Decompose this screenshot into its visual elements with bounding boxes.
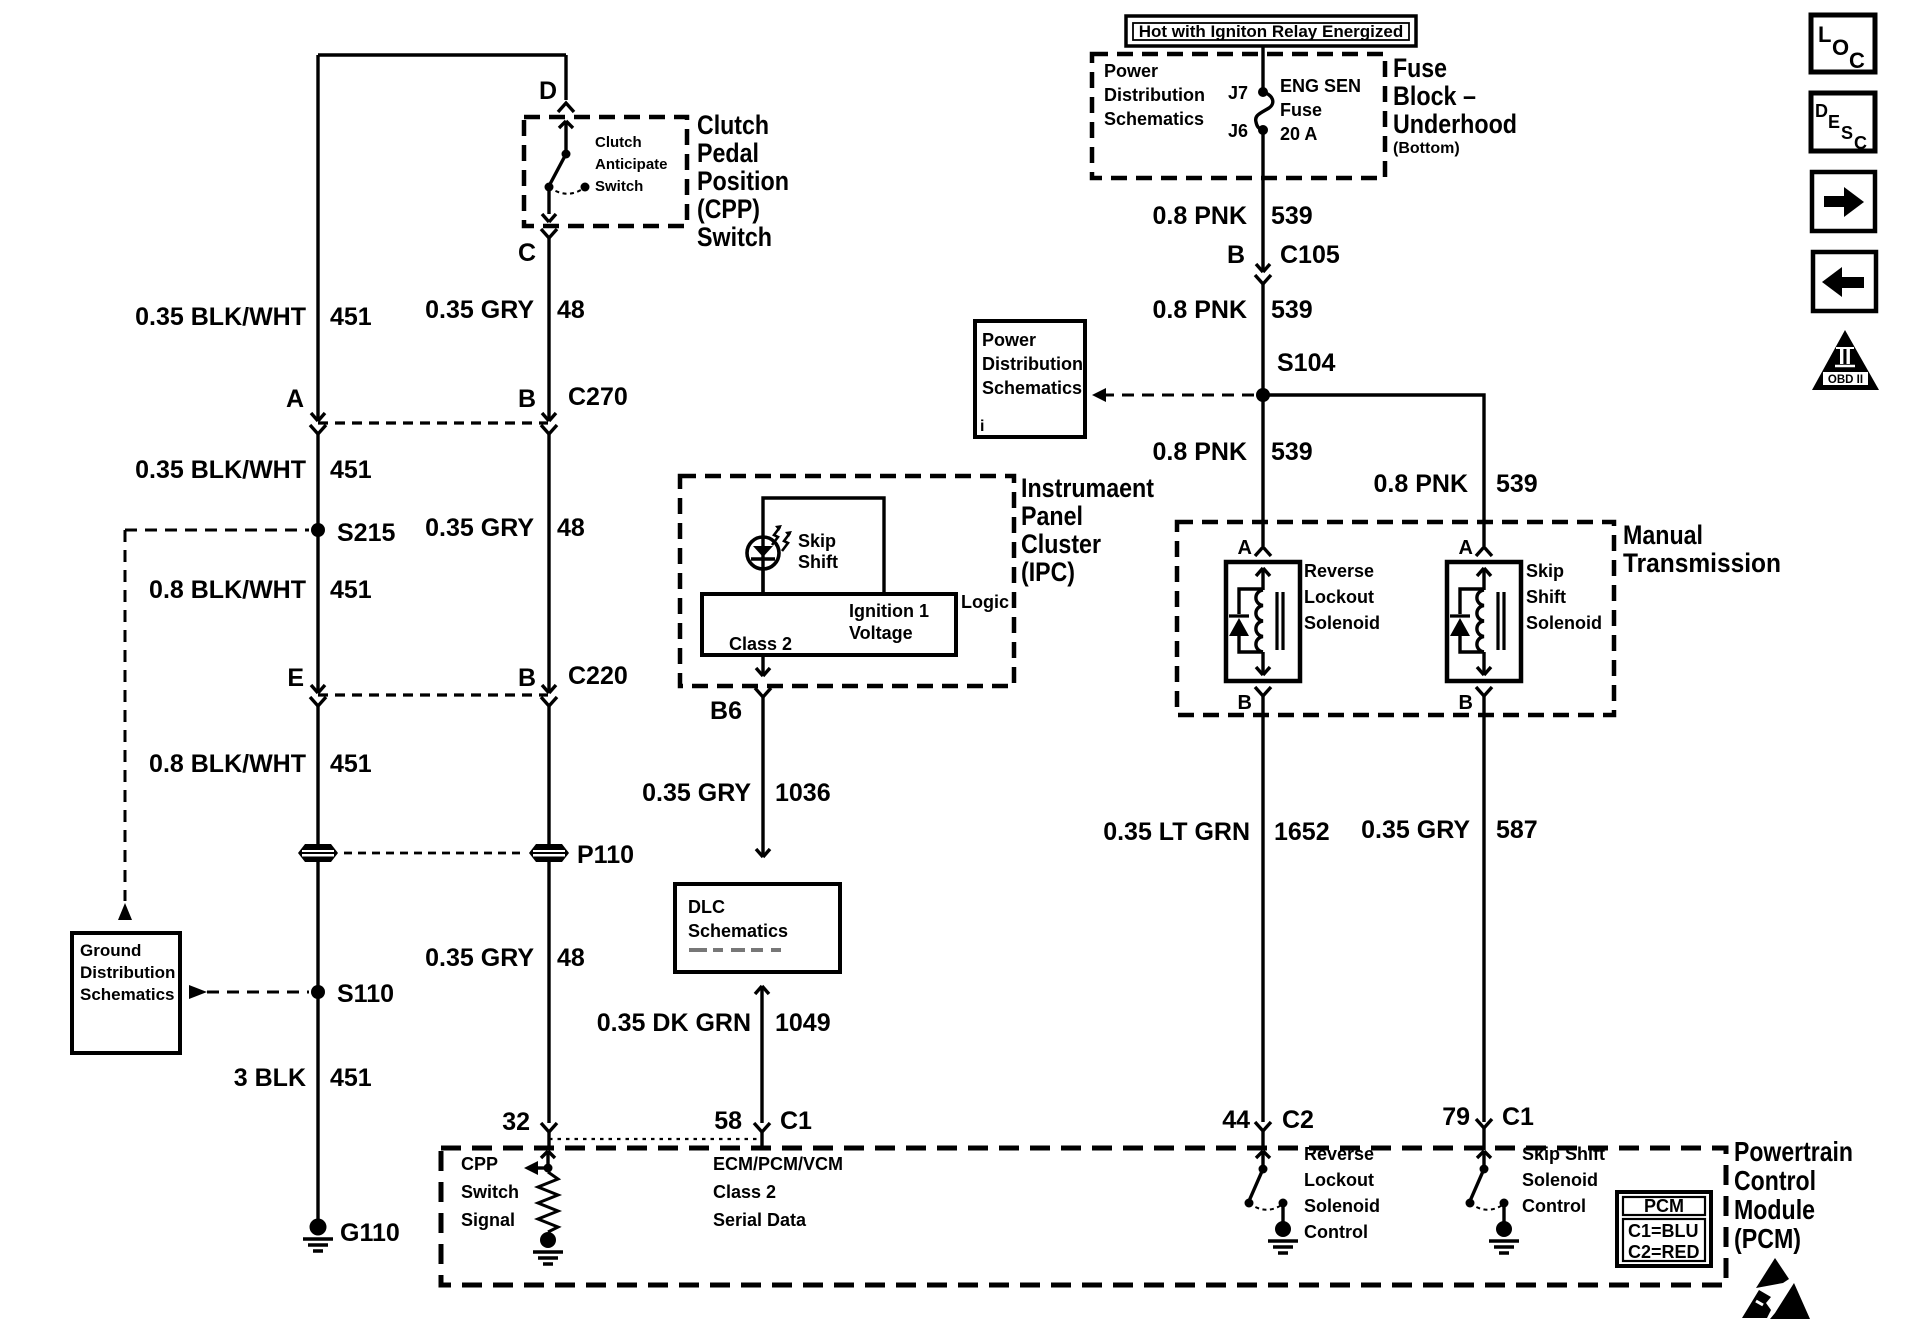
svg-text:0.8 BLK/WHT: 0.8 BLK/WHT [149,750,306,778]
svg-text:0.35 DK GRN: 0.35 DK GRN [597,1009,751,1037]
svg-text:S: S [1841,123,1853,143]
svg-text:Switch: Switch [461,1182,519,1202]
svg-text:Ignition 1: Ignition 1 [849,601,929,621]
svg-text:(IPC): (IPC) [1021,557,1075,587]
svg-text:J7: J7 [1228,83,1248,103]
svg-text:79: 79 [1442,1103,1470,1131]
svg-text:Module: Module [1734,1194,1815,1225]
svg-text:539: 539 [1271,202,1313,230]
svg-text:Position: Position [697,166,789,196]
svg-text:Skip Shift: Skip Shift [1522,1144,1605,1164]
svg-text:Lockout: Lockout [1304,1170,1374,1190]
svg-text:Solenoid: Solenoid [1522,1170,1598,1190]
svg-text:J6: J6 [1228,121,1248,141]
svg-text:D: D [1815,101,1828,121]
svg-text:i: i [980,418,984,435]
svg-text:Clutch: Clutch [697,110,769,140]
svg-text:L: L [1818,22,1831,47]
svg-text:1036: 1036 [775,779,831,807]
svg-text:Clutch: Clutch [595,134,642,151]
svg-text:B: B [1227,241,1245,269]
svg-text:Anticipate: Anticipate [595,156,668,173]
svg-text:P110: P110 [577,841,634,869]
svg-text:0.8 BLK/WHT: 0.8 BLK/WHT [149,576,306,604]
svg-text:0.35 GRY: 0.35 GRY [425,944,534,972]
svg-text:Panel: Panel [1021,501,1083,531]
svg-text:Solenoid: Solenoid [1304,1196,1380,1216]
svg-text:Shift: Shift [1526,587,1566,607]
svg-text:Distribution: Distribution [982,354,1083,374]
svg-text:587: 587 [1496,816,1538,844]
svg-text:Distribution: Distribution [80,963,175,982]
svg-text:C105: C105 [1280,241,1340,269]
svg-text:D: D [539,77,557,105]
svg-text:C1=BLU: C1=BLU [1628,1221,1699,1241]
svg-text:451: 451 [330,456,372,484]
svg-text:Schematics: Schematics [80,985,175,1004]
svg-text:Fuse: Fuse [1280,100,1322,120]
svg-text:20 A: 20 A [1280,124,1317,144]
svg-text:ECM/PCM/VCM: ECM/PCM/VCM [713,1154,843,1174]
svg-text:0.8 PNK: 0.8 PNK [1374,470,1468,498]
svg-text:C: C [1849,48,1865,73]
svg-text:S215: S215 [337,519,395,547]
svg-text:Manual: Manual [1623,520,1703,550]
svg-text:451: 451 [330,750,372,778]
svg-text:PCM: PCM [1644,1196,1684,1216]
svg-text:Class 2: Class 2 [713,1182,776,1202]
svg-text:B: B [1459,692,1473,714]
svg-text:Solenoid: Solenoid [1526,613,1602,633]
svg-text:Transmission: Transmission [1623,548,1781,578]
svg-text:A: A [1459,537,1473,559]
svg-text:58: 58 [714,1107,742,1135]
svg-text:C270: C270 [568,383,628,411]
svg-text:B: B [1238,692,1252,714]
svg-text:Class 2: Class 2 [729,634,792,654]
svg-text:Reverse: Reverse [1304,561,1374,581]
svg-text:Control: Control [1304,1222,1368,1242]
svg-text:(CPP): (CPP) [697,194,760,224]
svg-text:451: 451 [330,576,372,604]
svg-text:Reverse: Reverse [1304,1144,1374,1164]
svg-text:0.35 BLK/WHT: 0.35 BLK/WHT [135,303,306,331]
svg-text:ENG SEN: ENG SEN [1280,76,1361,96]
svg-text:Schematics: Schematics [982,378,1082,398]
svg-text:Schematics: Schematics [688,921,788,941]
svg-text:Solenoid: Solenoid [1304,613,1380,633]
svg-text:B6: B6 [710,697,742,725]
svg-text:E: E [1828,112,1840,132]
svg-text:Skip: Skip [1526,561,1564,581]
svg-text:Block –: Block – [1393,81,1476,111]
svg-text:Power: Power [1104,61,1158,81]
svg-text:1049: 1049 [775,1009,831,1037]
svg-text:0.8 PNK: 0.8 PNK [1153,202,1247,230]
svg-text:C: C [1854,133,1867,153]
svg-text:0.35 GRY: 0.35 GRY [425,296,534,324]
svg-text:CPP: CPP [461,1154,498,1174]
svg-text:Shift: Shift [798,552,838,572]
svg-text:1652: 1652 [1274,818,1330,846]
svg-text:Switch: Switch [697,222,772,252]
svg-text:Instrumaent: Instrumaent [1021,473,1154,503]
svg-text:C2=RED: C2=RED [1628,1242,1700,1262]
svg-text:A: A [1238,537,1252,559]
svg-text:Hot with Igniton Relay Energiz: Hot with Igniton Relay Energized [1139,22,1403,41]
svg-text:C: C [518,239,536,267]
svg-text:Ground: Ground [80,941,141,960]
svg-text:539: 539 [1496,470,1538,498]
svg-text:48: 48 [557,944,585,972]
svg-text:Schematics: Schematics [1104,109,1204,129]
svg-text:DLC: DLC [688,897,725,917]
svg-text:(Bottom): (Bottom) [1393,140,1460,157]
svg-text:Signal: Signal [461,1210,515,1230]
svg-text:B: B [518,385,536,413]
svg-text:539: 539 [1271,296,1313,324]
svg-text:48: 48 [557,514,585,542]
svg-text:0.8 PNK: 0.8 PNK [1153,296,1247,324]
svg-text:0.8 PNK: 0.8 PNK [1153,438,1247,466]
svg-text:O: O [1832,35,1849,60]
svg-text:C1: C1 [1502,1103,1534,1131]
svg-text:Voltage: Voltage [849,623,913,643]
svg-text:Serial Data: Serial Data [713,1210,807,1230]
svg-text:44: 44 [1222,1106,1250,1134]
svg-text:451: 451 [330,303,372,331]
svg-text:0.35 GRY: 0.35 GRY [642,779,751,807]
svg-text:S104: S104 [1277,349,1335,377]
svg-text:C2: C2 [1282,1106,1314,1134]
svg-text:Lockout: Lockout [1304,587,1374,607]
svg-text:0.35 GRY: 0.35 GRY [425,514,534,542]
svg-text:Distribution: Distribution [1104,85,1205,105]
svg-text:48: 48 [557,296,585,324]
svg-text:Fuse: Fuse [1393,53,1447,83]
svg-text:Underhood: Underhood [1393,109,1517,139]
svg-text:S110: S110 [337,980,394,1008]
svg-text:B: B [518,664,536,692]
svg-text:0.35 GRY: 0.35 GRY [1361,816,1470,844]
svg-text:G110: G110 [340,1219,400,1247]
svg-text:0.35 LT GRN: 0.35 LT GRN [1103,818,1250,846]
svg-text:Control: Control [1522,1196,1586,1216]
svg-text:E: E [287,664,304,692]
svg-text:OBD II: OBD II [1828,374,1863,386]
svg-text:Pedal: Pedal [697,138,759,168]
svg-text:Logic: Logic [961,592,1009,612]
svg-text:0.35 BLK/WHT: 0.35 BLK/WHT [135,456,306,484]
svg-text:539: 539 [1271,438,1313,466]
svg-text:3 BLK: 3 BLK [234,1064,306,1092]
svg-text:Cluster: Cluster [1021,529,1101,559]
svg-text:C1: C1 [780,1107,812,1135]
svg-text:Powertrain: Powertrain [1734,1136,1853,1167]
svg-text:32: 32 [502,1108,530,1136]
svg-text:(PCM): (PCM) [1734,1223,1801,1254]
svg-text:Power: Power [982,330,1036,350]
svg-text:451: 451 [330,1064,372,1092]
svg-text:Skip: Skip [798,531,836,551]
svg-text:C220: C220 [568,662,628,690]
svg-text:Control: Control [1734,1165,1816,1196]
svg-text:Switch: Switch [595,178,643,195]
svg-text:A: A [286,385,304,413]
